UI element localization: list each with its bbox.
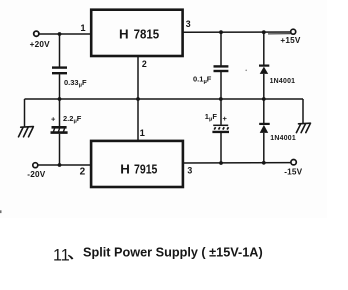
svg-text:7915: 7915 — [134, 161, 158, 176]
wire C1 to mid rail — [59, 74, 61, 99]
svg-text:2.2µF: 2.2µF — [63, 114, 82, 125]
svg-text:+15V: +15V — [280, 36, 300, 45]
wire rail left drop — [24, 99, 26, 127]
node -20V junction — [58, 163, 62, 167]
wire -20V input to pin2 (U2) — [38, 164, 91, 166]
diode D2 1N4001 — [259, 124, 296, 142]
svg-text:0.33µF: 0.33µF — [64, 78, 87, 89]
svg-text:3: 3 — [187, 166, 192, 176]
node bottom-C4 junction — [219, 161, 223, 165]
svg-text:H: H — [120, 161, 130, 176]
capacitor C3 0.1uF — [193, 66, 228, 84]
caption — [53, 246, 263, 265]
wire D1 to rail — [263, 74, 265, 99]
svg-text:0.1µF: 0.1µF — [193, 74, 212, 85]
node rail-C1 junction — [58, 97, 62, 101]
svg-text:2: 2 — [80, 167, 86, 178]
wire rail down to U2 pin1 — [137, 99, 139, 141]
svg-text:3: 3 — [186, 19, 191, 29]
svg-text:+20V: +20V — [30, 40, 50, 49]
svg-text:-15V: -15V — [284, 167, 302, 176]
node top-D1 junction — [262, 30, 266, 34]
wire rail right drop — [302, 99, 304, 124]
wire top rail down to D1 — [263, 32, 265, 64]
wire C2 to -20V wire — [59, 134, 61, 165]
wire rail down to C4 — [220, 99, 222, 125]
svg-text:7815: 7815 — [134, 27, 160, 42]
regulator U2 H7915 box — [91, 141, 183, 187]
terminal +20V — [30, 31, 50, 49]
svg-text:Split Power Supply ( ±15V-1A): Split Power Supply ( ±15V-1A) — [83, 246, 263, 260]
svg-text:H: H — [119, 27, 129, 42]
wire C4 to -15V rail — [220, 133, 222, 163]
ground (left) — [19, 127, 34, 137]
wire +20V input to pin1 — [39, 33, 91, 35]
wire rail down to D2 — [263, 99, 265, 123]
wire D2 to -15V rail — [263, 133, 265, 163]
wire node A down to C1 — [59, 34, 61, 67]
capacitor C2 2.2uF electrolytic — [51, 114, 82, 133]
terminal +15V — [280, 29, 300, 45]
node rail-D2 junction — [262, 97, 266, 101]
capacitor C4 1uF electrolytic — [205, 112, 229, 132]
wire U1 pin3 to +15V — [183, 31, 291, 33]
svg-text:1N4001: 1N4001 — [270, 135, 296, 142]
wire node A2 down: -20V column up to rail — [59, 99, 61, 126]
mid ground rail — [25, 98, 304, 100]
node rail-C3 junction — [219, 97, 223, 101]
wire top rail down to C3 — [220, 32, 222, 66]
diode D1 1N4001 — [259, 66, 295, 85]
svg-text:1N4001: 1N4001 — [270, 78, 296, 85]
terminal -20V — [27, 163, 45, 180]
node A junction — [58, 32, 62, 36]
node bottom-D2 junction — [262, 161, 266, 165]
svg-text:2: 2 — [142, 59, 147, 69]
terminal -15V — [284, 160, 302, 177]
wire U1 pin2 down to rail — [137, 57, 139, 100]
svg-text:1: 1 — [80, 22, 85, 33]
node top-C3 junction — [219, 30, 223, 34]
svg-text:11: 11 — [53, 247, 70, 265]
wire shadow artifact — [268, 33, 291, 35]
wire C3 to rail — [220, 72, 222, 99]
speck artifact left edge — [0, 210, 2, 213]
svg-text:+: + — [223, 114, 228, 123]
svg-text:-20V: -20V — [27, 170, 45, 179]
wire U2 pin3 to -15V — [183, 162, 291, 164]
svg-text:+: + — [51, 114, 56, 123]
regulator U1 H7815 box — [91, 10, 182, 56]
speck artifact near D1 — [245, 70, 247, 72]
capacitor C1 0.33uF — [52, 68, 87, 89]
svg-text:1: 1 — [140, 127, 145, 138]
ground (right) — [296, 123, 310, 132]
scan background region — [0, 0, 327, 218]
node rail-pin junction — [136, 97, 140, 101]
